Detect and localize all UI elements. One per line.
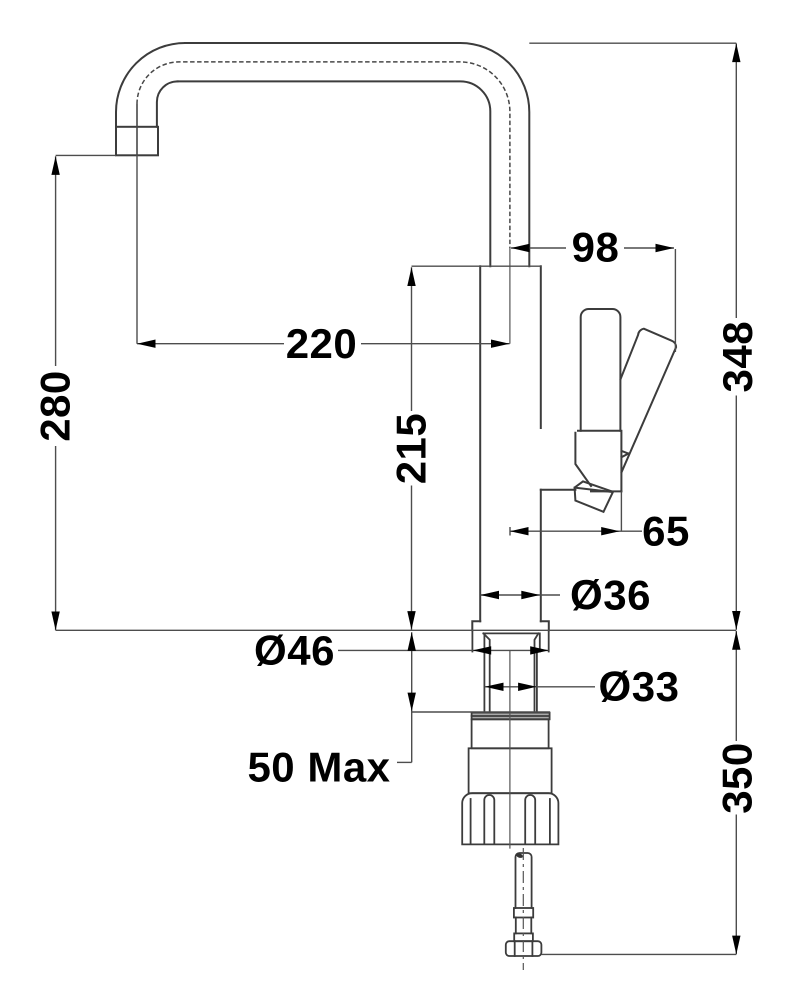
svg-text:65: 65: [642, 508, 690, 555]
svg-text:350: 350: [713, 742, 760, 814]
svg-text:50 Max: 50 Max: [247, 744, 390, 791]
svg-text:Ø33: Ø33: [599, 663, 680, 710]
svg-text:280: 280: [31, 370, 78, 442]
svg-text:215: 215: [387, 413, 434, 485]
svg-text:348: 348: [714, 321, 761, 393]
svg-text:98: 98: [572, 224, 620, 271]
svg-text:Ø46: Ø46: [254, 627, 335, 674]
svg-text:220: 220: [286, 320, 358, 367]
svg-text:Ø36: Ø36: [570, 572, 651, 619]
